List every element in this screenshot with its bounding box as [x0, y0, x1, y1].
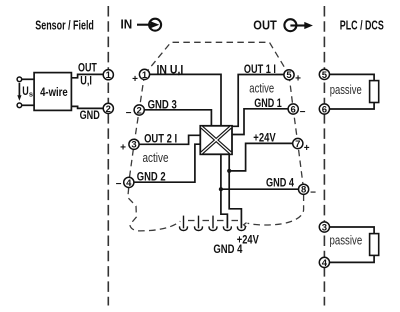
svg-text:OUT 2 I: OUT 2 I	[144, 131, 177, 145]
svg-text:Sensor / Field: Sensor / Field	[35, 19, 94, 33]
svg-text:4: 4	[322, 258, 328, 269]
svg-text:3: 3	[322, 222, 327, 233]
svg-text:IN: IN	[121, 18, 133, 32]
svg-text:−: −	[126, 108, 132, 119]
svg-text:5: 5	[322, 70, 328, 81]
svg-text:4-wire: 4-wire	[40, 85, 68, 99]
svg-text:GND 4: GND 4	[213, 242, 242, 256]
svg-text:+: +	[304, 143, 310, 154]
svg-text:IN U,I: IN U,I	[157, 62, 184, 76]
svg-text:OUT: OUT	[78, 61, 97, 75]
svg-text:1: 1	[106, 70, 112, 81]
svg-text:OUT: OUT	[253, 18, 277, 32]
svg-text:PLC / DCS: PLC / DCS	[340, 19, 384, 33]
svg-text:−: −	[300, 107, 306, 118]
svg-text:GND 1: GND 1	[254, 96, 282, 110]
svg-text:GND: GND	[80, 108, 100, 122]
svg-text:U,I: U,I	[80, 74, 92, 88]
svg-text:2: 2	[137, 105, 142, 116]
svg-text:passive: passive	[330, 233, 363, 248]
svg-text:−: −	[116, 179, 122, 190]
svg-text:+: +	[120, 143, 126, 154]
svg-text:+: +	[132, 74, 138, 85]
svg-text:2: 2	[106, 104, 111, 115]
svg-text:+: +	[295, 73, 301, 84]
svg-text:7: 7	[295, 139, 300, 150]
svg-text:1: 1	[142, 70, 148, 81]
svg-text:3: 3	[131, 140, 136, 151]
svg-text:GND 3: GND 3	[148, 97, 177, 111]
svg-text:6: 6	[291, 104, 296, 115]
svg-text:s: s	[29, 90, 33, 99]
svg-text:−: −	[310, 188, 316, 199]
svg-text:+24V: +24V	[253, 130, 275, 144]
svg-text:GND 4: GND 4	[266, 176, 294, 190]
svg-text:OUT 1 I: OUT 1 I	[244, 62, 276, 76]
svg-text:8: 8	[301, 185, 306, 196]
svg-text:passive: passive	[330, 82, 362, 97]
svg-text:active: active	[249, 81, 274, 96]
svg-text:4: 4	[126, 178, 132, 189]
svg-text:U: U	[22, 84, 29, 98]
svg-text:active: active	[143, 150, 169, 165]
svg-text:GND 2: GND 2	[137, 170, 166, 184]
svg-text:5: 5	[286, 70, 292, 81]
svg-text:6: 6	[322, 104, 327, 115]
